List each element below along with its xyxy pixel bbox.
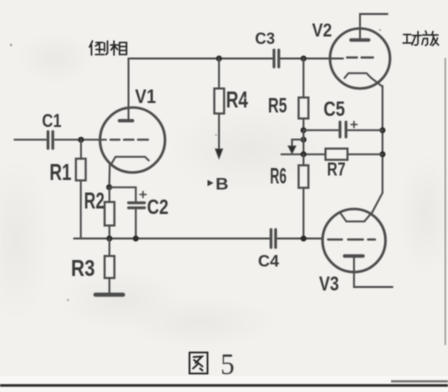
V1 anode bar: [120, 119, 133, 122]
diagonal lead into V3: [371, 193, 382, 214]
capacitor C1: [48, 132, 53, 149]
svg-text:R2: R2: [84, 187, 105, 213]
label B+ supply: [208, 180, 214, 186]
resistor R3: [108, 239, 110, 257]
node R2/R3 junction: [106, 236, 112, 242]
放: [422, 31, 439, 46]
wiper arrow: [292, 140, 304, 147]
wire C5 left: [304, 129, 339, 131]
capacitor C3: [274, 50, 279, 67]
top wire V1 anode to C3: [129, 58, 273, 60]
bottom wire to C4: [74, 238, 270, 240]
node R4 top: [216, 56, 222, 62]
resistor R4: [218, 59, 220, 89]
C2 plus mark: [140, 192, 146, 198]
node C2 bottom: [133, 236, 139, 242]
triode V3 envelope: [323, 209, 386, 272]
V2 grid (dashed): [347, 56, 373, 58]
svg-text:C3: C3: [255, 29, 275, 48]
capacitor C5: [340, 122, 346, 137]
V2 cathode lead diagonal to rail: [371, 78, 382, 87]
wiper node: [301, 137, 307, 143]
wire input left to C1: [15, 139, 47, 141]
node at C1/R1 junction: [78, 137, 84, 143]
V1 cathode: [111, 157, 149, 165]
ground: [96, 293, 124, 297]
svg-text:C5: C5: [324, 98, 346, 121]
svg-text:R1: R1: [50, 159, 72, 185]
svg-text:R6: R6: [270, 163, 287, 188]
capacitor C2: [129, 203, 145, 208]
svg-text:C2: C2: [147, 196, 169, 219]
功: [403, 32, 421, 46]
node R6 / V3 grid junction: [301, 236, 307, 242]
faint page edge line right: [444, 58, 446, 345]
svg-text:R3: R3: [71, 255, 95, 281]
V3 anode bar (bottom): [345, 254, 363, 257]
arrow to +B: [215, 149, 222, 159]
svg-text:5: 5: [221, 348, 235, 381]
triode V1 envelope: [100, 108, 165, 173]
right rail from V2 cathode down: [382, 86, 384, 193]
node R7 wiper junction: [301, 151, 307, 157]
V1 cathode junction node: [106, 184, 112, 190]
C5 plus mark: [351, 122, 357, 128]
triode V2 envelope: [330, 29, 390, 89]
相: [111, 41, 127, 55]
V2 anode bar: [351, 38, 369, 41]
wire junction to C2: [109, 187, 136, 201]
svg-text:V1: V1: [135, 87, 156, 108]
node R5 top: [301, 56, 307, 62]
node C5 left: [301, 127, 307, 133]
bottom rule line: [0, 384, 448, 387]
V1 grid (dashed): [111, 139, 149, 141]
svg-text:C4: C4: [258, 251, 280, 270]
resistor R5: [303, 59, 305, 98]
resistor R6: [303, 154, 305, 165]
resistor R1: [80, 140, 82, 159]
V3 cathode (top): [340, 213, 371, 222]
svg-text:R5: R5: [268, 95, 287, 118]
V3 anode lead down and right: [354, 257, 393, 288]
capacitor C4: [271, 230, 276, 248]
倒: [90, 41, 108, 55]
V3 grid (dashed): [328, 238, 375, 240]
label 倒相 (phase inverter) hand-drawn glyphs: [90, 41, 127, 55]
V1 anode lead up: [128, 59, 130, 121]
bottom right gray segment: [391, 380, 448, 382]
svg-text:C1: C1: [42, 111, 62, 131]
potentiometer R7 wire: [281, 153, 325, 155]
label 功放 (power amp) hand-drawn glyphs: [403, 31, 439, 46]
node C5 right: [380, 127, 386, 133]
svg-text:R4: R4: [226, 86, 248, 112]
svg-text:V3: V3: [319, 273, 339, 295]
V1 cathode lead down: [108, 164, 111, 188]
V2 cathode: [345, 73, 372, 78]
resistor R2: [105, 202, 115, 226]
scan speckles: [10, 29, 381, 301]
svg-text:B: B: [216, 175, 229, 194]
label 图 (figure) hand-drawn glyph: [190, 353, 208, 374]
wire C3 to V2 grid: [281, 58, 344, 60]
V2 anode lead up and right: [360, 14, 388, 40]
svg-text:V2: V2: [312, 21, 332, 41]
svg-text:R7: R7: [327, 160, 346, 180]
node R7 right: [380, 151, 386, 157]
wire C5 right: [348, 129, 383, 131]
wire C1 to V1 grid: [55, 139, 106, 141]
